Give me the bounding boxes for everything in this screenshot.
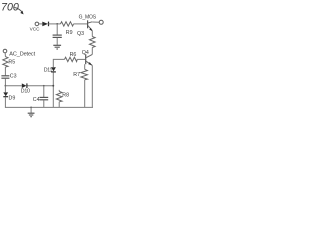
svg-text:R9: R9 — [66, 30, 73, 36]
node C4 tap — [43, 85, 45, 87]
svg-text:Q3: Q3 — [77, 31, 84, 37]
node junction mid rail / D11 branch — [52, 85, 54, 87]
wire R6 to Q4 base — [77, 58, 85, 60]
resistor R7 — [81, 69, 88, 79]
wire junction down to capacitor — [56, 24, 58, 35]
svg-text:R5: R5 — [8, 60, 15, 66]
svg-text:VCC: VCC — [30, 27, 41, 32]
svg-text:R6: R6 — [70, 52, 77, 58]
ground (bottom) — [30, 107, 32, 112]
wire C4 tap down — [43, 86, 45, 97]
svg-text:D9: D9 — [9, 96, 16, 102]
wire C3 down to mid rail — [4, 79, 6, 86]
node at left mid rail — [5, 85, 7, 87]
svg-text:C4: C4 — [33, 97, 40, 103]
node ground tap — [30, 107, 32, 109]
wire diode to R9 — [49, 23, 61, 25]
wire R9 to Q3 base — [74, 23, 88, 25]
resistor R6 — [65, 57, 78, 61]
terminal AC_Detect — [3, 49, 7, 53]
wire capacitor to ground — [56, 38, 58, 45]
diode D11 — [51, 67, 56, 71]
transistor Q4 — [86, 54, 92, 57]
svg-text:Q4: Q4 — [82, 50, 89, 56]
svg-text:C3: C3 — [10, 73, 17, 79]
wire Q3 emitter down — [91, 31, 93, 37]
svg-text:R7: R7 — [73, 72, 80, 78]
terminal G_MOS — [99, 20, 103, 24]
wire resistor to Q4 collector — [91, 48, 93, 55]
svg-text:700: 700 — [1, 1, 19, 13]
wire R7 down to bottom rail — [84, 80, 86, 108]
mid rail wire D10 to junction — [28, 85, 54, 87]
diode (VCC rail, unlabeled) — [42, 22, 48, 27]
wire D11 down through mid rail junction to bottom rail — [52, 72, 54, 107]
svg-text:D11: D11 — [44, 67, 53, 73]
wire R5 to C3 — [4, 67, 6, 75]
bottom rail wire — [5, 106, 93, 108]
wire VCC to diode — [39, 23, 43, 25]
capacitor (top, unlabeled) — [53, 34, 62, 36]
wire C4 to bottom rail — [43, 100, 45, 107]
svg-text:G_MOS: G_MOS — [79, 14, 97, 20]
transistor Q3 — [87, 20, 89, 28]
wire Q4 emitter down to bottom rail — [91, 65, 93, 107]
capacitor C4 — [40, 96, 49, 98]
wire AC_Detect down to R5 — [4, 53, 6, 57]
resistor R5 — [3, 57, 8, 67]
diode D10 — [22, 83, 27, 88]
wire corner to R6 — [53, 59, 64, 67]
wire left branch: mid rail down through D9 to bottom rail — [4, 86, 6, 93]
svg-text:AC_Detect: AC_Detect — [9, 52, 35, 58]
callout leader arrow — [15, 7, 23, 12]
resistor (unlabeled, right branch) — [90, 37, 96, 48]
svg-text:D10: D10 — [21, 89, 30, 95]
wire Q4 base bar down to R7 — [84, 64, 86, 69]
diode D9 — [3, 92, 8, 96]
wire Q3 collector to G_MOS terminal — [92, 21, 99, 23]
ground (top) — [53, 44, 61, 46]
capacitor C3 — [1, 75, 9, 77]
svg-text:R8: R8 — [62, 93, 69, 99]
mid rail wire to D10 — [5, 85, 21, 87]
resistor R9 — [61, 22, 74, 26]
resistor R8 — [58, 90, 60, 91]
wire R8 to bottom rail — [58, 102, 60, 108]
terminal VCC — [35, 22, 39, 26]
node junction at top rail — [56, 23, 58, 25]
